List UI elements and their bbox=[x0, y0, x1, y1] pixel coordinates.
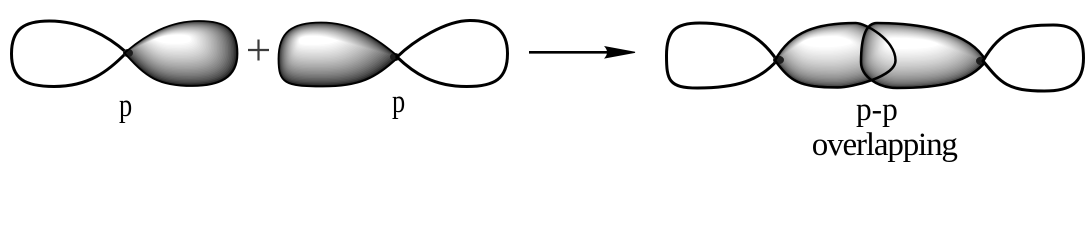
tip knob: p1 shaded lobe bbox=[123, 49, 133, 57]
plus sign bbox=[248, 40, 269, 61]
outline: p2 shaded lobe bbox=[279, 23, 399, 87]
result: central right shaded lobe fill bbox=[861, 23, 986, 88]
outline: central left shaded lobe bbox=[775, 23, 896, 88]
result: central left shaded lobe fill bbox=[775, 23, 896, 88]
orbital lobe: p1 shaded (right) bbox=[125, 21, 238, 86]
label p-p bbox=[856, 94, 898, 127]
label overlapping bbox=[812, 129, 957, 162]
reaction arrow shaft bbox=[529, 51, 620, 54]
tip knob: central right lobe bbox=[976, 57, 986, 65]
reaction arrow head bbox=[606, 47, 636, 58]
result: left white lobe bbox=[667, 23, 778, 88]
orbital lobe: p2 white (right) bbox=[397, 21, 508, 87]
label p (orbital B) bbox=[392, 86, 405, 119]
outline: central right shaded lobe bbox=[861, 23, 986, 88]
orbital lobe: p2 shaded (left) bbox=[279, 23, 399, 87]
orbital lobe: p1 white (left) bbox=[12, 21, 127, 87]
label p (orbital A) bbox=[119, 90, 132, 123]
tip knob: p2 shaded lobe bbox=[390, 53, 400, 61]
tip knob: central left lobe bbox=[773, 56, 784, 64]
outline: p1 shaded lobe bbox=[125, 21, 238, 86]
result: right white lobe bbox=[983, 25, 1084, 91]
